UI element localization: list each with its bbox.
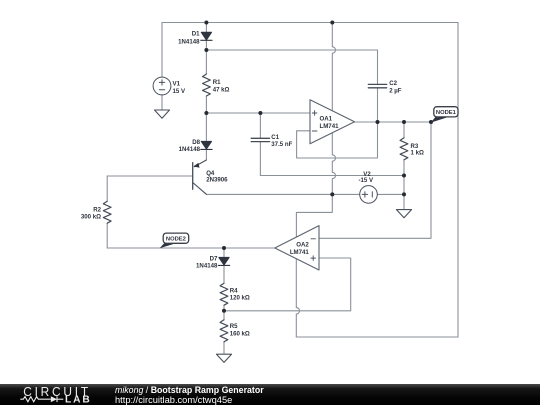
svg-text:NODE2: NODE2 bbox=[166, 237, 186, 243]
wire C2 bottom lead bbox=[377, 88, 379, 122]
wire D7 to R4 bbox=[223, 265, 225, 283]
svg-text:LM741: LM741 bbox=[320, 123, 340, 130]
resistor R2 bbox=[103, 201, 111, 223]
svg-text:D7: D7 bbox=[210, 255, 218, 262]
wire R3 bottom lead bbox=[403, 160, 405, 194]
svg-text:V1: V1 bbox=[173, 81, 181, 88]
junction C1 top / +in rail bbox=[258, 111, 262, 115]
resistor R1 bbox=[203, 74, 211, 96]
capacitor C1 bbox=[251, 138, 269, 141]
wire R3 ground stub bbox=[403, 194, 405, 209]
wire D1 top lead bbox=[205, 23, 207, 33]
wire right rail bbox=[457, 23, 459, 338]
wire y50 rail bbox=[206, 49, 377, 51]
wire V2 right lead bbox=[377, 193, 404, 195]
wire +in rail bbox=[206, 112, 310, 114]
svg-text:LM741: LM741 bbox=[290, 249, 310, 256]
op-amp OA2 bbox=[275, 226, 319, 270]
wire OA1 output to NODE1 bbox=[355, 121, 432, 123]
svg-text:160 kΩ: 160 kΩ bbox=[230, 331, 250, 338]
svg-text:C1: C1 bbox=[271, 134, 279, 141]
junction V2 right / ground stub bbox=[402, 192, 406, 196]
voltage source V1 bbox=[153, 77, 171, 95]
junction C2 bottom / OA1 output bbox=[376, 120, 380, 124]
wire bottom loop bbox=[296, 336, 458, 338]
svg-text:R4: R4 bbox=[230, 287, 238, 294]
wire D1 to R1 bbox=[205, 40, 207, 74]
svg-text:2 µF: 2 µF bbox=[389, 88, 402, 95]
wire D8 to Q4 emitter bbox=[205, 149, 207, 160]
diode D7 bbox=[218, 257, 229, 265]
svg-text:1 kΩ: 1 kΩ bbox=[411, 150, 424, 157]
wire OA2 +in loop bbox=[224, 258, 351, 311]
svg-text:47 kΩ: 47 kΩ bbox=[213, 86, 230, 93]
resistor R5 bbox=[220, 320, 228, 342]
wire V1 top lead bbox=[161, 23, 163, 78]
svg-text:R1: R1 bbox=[213, 79, 221, 86]
svg-text:1N4148: 1N4148 bbox=[179, 146, 201, 153]
wire Q4 base bbox=[107, 175, 193, 177]
ground V1 bbox=[155, 110, 170, 118]
ground R5 bbox=[217, 354, 232, 362]
wire OA1 V- pin bbox=[332, 133, 335, 195]
svg-text:2N3906: 2N3906 bbox=[206, 177, 228, 184]
transistor Q4 bbox=[193, 160, 207, 194]
node A NODE1 corner bbox=[429, 120, 433, 124]
svg-text:37.5 nF: 37.5 nF bbox=[271, 141, 292, 148]
svg-text:OA2: OA2 bbox=[296, 242, 309, 249]
wire NODE2 rail OA2 output bbox=[107, 247, 275, 249]
node flag NODE2 bbox=[160, 233, 189, 248]
wire NODE1 down to OA2 -in bbox=[319, 122, 431, 238]
wire y175 rail bbox=[260, 175, 404, 177]
svg-text:120 kΩ: 120 kΩ bbox=[230, 295, 250, 302]
capacitor C2 bbox=[368, 84, 386, 87]
wire C1 top lead bbox=[259, 113, 261, 138]
wire D8 top lead bbox=[205, 113, 207, 141]
svg-text:1N4148: 1N4148 bbox=[178, 38, 200, 45]
voltage source V2 bbox=[360, 186, 378, 204]
junction D1 top rail bbox=[204, 21, 208, 25]
svg-text:NODE1: NODE1 bbox=[436, 110, 457, 116]
svg-text:D1: D1 bbox=[192, 31, 200, 38]
wire R2 top lead bbox=[106, 176, 108, 201]
wire OA1 -in feedback bbox=[297, 122, 378, 158]
wire R4 bottom lead bbox=[223, 306, 225, 320]
wire V2 to OA2 V+ path bbox=[296, 194, 332, 237]
junction D7 top / NODE2 rail bbox=[222, 246, 226, 250]
wire R5 bottom lead bbox=[223, 342, 225, 354]
wire OA1 V+ pin bbox=[332, 23, 335, 111]
wire V1 bottom lead bbox=[161, 95, 163, 110]
diode D8 bbox=[201, 141, 212, 149]
CircuitLab logo bbox=[0, 384, 110, 405]
junction R4-R5 / +in loop bbox=[222, 309, 226, 313]
svg-text:R2: R2 bbox=[93, 206, 101, 213]
junction D1 cathode / y50 rail bbox=[204, 48, 208, 52]
resistor R4 bbox=[220, 283, 228, 305]
junction R3 bottom / C1 rail bbox=[402, 174, 406, 178]
wire top rail bbox=[107, 23, 458, 355]
junction R1 bottom / +in rail bbox=[204, 111, 208, 115]
svg-text:-15 V: -15 V bbox=[359, 177, 375, 184]
svg-text:1N4148: 1N4148 bbox=[196, 263, 218, 270]
wire Q4 collector to V2 bbox=[206, 193, 359, 195]
wire D7 top lead bbox=[223, 248, 225, 257]
node flag NODE1 bbox=[431, 107, 458, 123]
svg-text:C2: C2 bbox=[389, 80, 397, 87]
wire OA2 V- lead bbox=[296, 260, 299, 338]
transistor Q4 emitter arrow bbox=[193, 163, 199, 168]
wire R2 bottom lead bbox=[106, 224, 108, 248]
svg-text:R5: R5 bbox=[230, 323, 238, 330]
svg-text:OA1: OA1 bbox=[320, 116, 333, 123]
diode D1 bbox=[201, 32, 212, 40]
op-amp OA1 bbox=[310, 100, 355, 144]
ground V2/R3 bbox=[397, 210, 412, 218]
wire C2 top lead bbox=[377, 50, 379, 84]
svg-text:15 V: 15 V bbox=[173, 88, 186, 95]
wire R3 top lead bbox=[403, 122, 405, 138]
resistor R3 bbox=[400, 138, 408, 160]
junction OA1 V+ top rail bbox=[330, 21, 334, 25]
svg-text:LAB: LAB bbox=[65, 395, 92, 405]
svg-text:300 kΩ: 300 kΩ bbox=[81, 214, 101, 221]
wire R1 to +in bbox=[205, 96, 207, 113]
wire C1 bottom lead bbox=[259, 142, 261, 176]
junction OA1 V- / V2 rail bbox=[330, 192, 334, 196]
footer bar bbox=[0, 384, 540, 405]
junction R3 top / OA1 output bbox=[402, 120, 406, 124]
